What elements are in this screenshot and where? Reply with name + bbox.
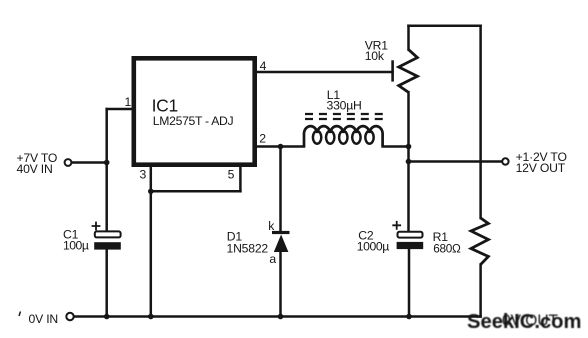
svg-text:100µ: 100µ bbox=[63, 239, 89, 253]
svg-text:0V IN: 0V IN bbox=[29, 312, 58, 326]
svg-text:1000µ: 1000µ bbox=[357, 239, 390, 253]
svg-text:5: 5 bbox=[228, 168, 235, 182]
svg-text:LM2575T - ADJ: LM2575T - ADJ bbox=[153, 114, 234, 128]
svg-text:330µH: 330µH bbox=[327, 99, 362, 113]
svg-text:4: 4 bbox=[260, 59, 267, 73]
svg-text:IC1: IC1 bbox=[152, 96, 178, 116]
svg-text:1N5822: 1N5822 bbox=[227, 241, 269, 255]
svg-text:40V IN: 40V IN bbox=[17, 162, 53, 176]
svg-text:10k: 10k bbox=[365, 49, 385, 63]
svg-text:12V OUT: 12V OUT bbox=[516, 161, 566, 175]
svg-text:0V OUT: 0V OUT bbox=[502, 313, 559, 330]
svg-text:680Ω: 680Ω bbox=[433, 241, 461, 255]
svg-text:a: a bbox=[269, 252, 276, 266]
svg-text:1: 1 bbox=[125, 95, 132, 109]
svg-text:2: 2 bbox=[259, 131, 266, 145]
svg-text:3: 3 bbox=[140, 168, 147, 182]
